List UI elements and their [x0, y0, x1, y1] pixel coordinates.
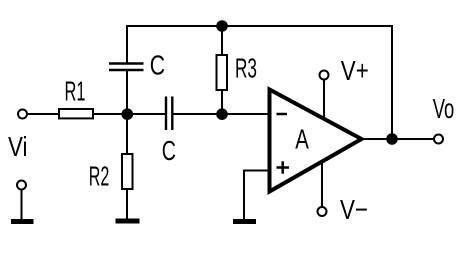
svg-text:A: A [295, 124, 309, 155]
svg-text:C: C [162, 135, 176, 166]
resistor R1 [59, 109, 93, 118]
wire R3 to node N2 [221, 90, 223, 114]
wire C2 to op-amp inverting input through node N2 [174, 113, 269, 115]
wire R1 to capacitor C2 through node N1 [93, 113, 165, 115]
wire rail to R3 [221, 26, 223, 55]
svg-text:V−: V− [340, 194, 368, 225]
svg-text:V+: V+ [341, 55, 369, 86]
node N4 junction (output / feedback) [386, 133, 398, 145]
terminal Vo (output) [434, 135, 443, 144]
svg-text:R1: R1 [65, 76, 86, 107]
wire op-amp non-inverting input to ground [244, 171, 269, 220]
ground (non-inverting input) [233, 219, 256, 224]
op-amp non-inverting input plus sign [277, 161, 290, 173]
wire op-amp output to terminal Vo through node N4 [361, 138, 434, 140]
wire input terminal to R1 [27, 113, 59, 115]
op-amp U1 (gain block A) [270, 90, 362, 192]
op-amp inverting input minus sign [277, 113, 288, 116]
terminal Vi reference (ground side) [17, 181, 26, 190]
capacitor C2 (horizontal, series) [166, 97, 172, 131]
wire node N1 up to capacitor C1 [126, 70, 128, 114]
wire node N1 down to R2 [126, 114, 128, 154]
wire C1 to top feedback rail and down to output node [127, 26, 392, 139]
node N2 junction [216, 108, 228, 120]
ground (input reference) [11, 219, 34, 224]
svg-text:R2: R2 [89, 161, 110, 192]
resistor R3 [217, 55, 228, 90]
wire op-amp to V- terminal [321, 160, 323, 207]
resistor R2 [122, 154, 133, 189]
capacitor C1 (vertical, to feedback rail) [109, 64, 144, 71]
node N1 junction [122, 108, 134, 120]
wire V+ terminal to op-amp [323, 80, 325, 121]
svg-text:Vi: Vi [8, 131, 28, 162]
node N3 junction (top of R3 on feedback rail) [216, 20, 228, 32]
terminal Vi (signal input) [18, 110, 27, 119]
wire Vi reference terminal to ground [21, 190, 23, 220]
svg-text:C: C [150, 50, 165, 81]
terminal V+ (positive supply) [320, 71, 329, 80]
terminal V- (negative supply) [318, 207, 327, 216]
ground (R2) [116, 219, 140, 224]
svg-text:R3: R3 [235, 53, 257, 84]
wire R2 to ground [126, 189, 128, 219]
svg-text:Vo: Vo [433, 93, 455, 124]
